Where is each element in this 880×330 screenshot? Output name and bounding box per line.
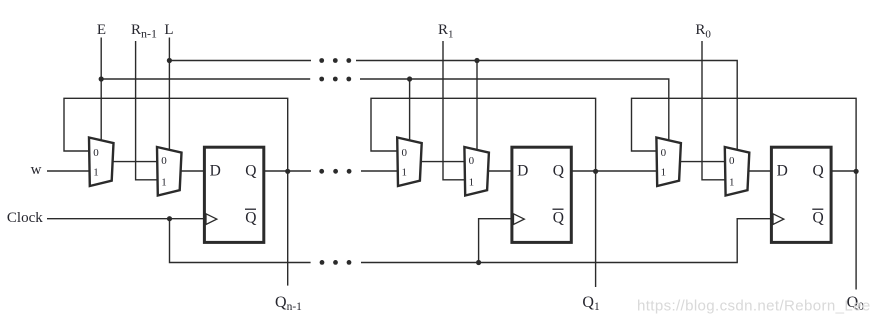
junction: clock branch stage 1: [476, 260, 481, 265]
wire: Q0 output: [831, 170, 856, 172]
svg-text:0: 0: [469, 155, 475, 167]
svg-text:0: 0: [93, 147, 99, 159]
2-to-1 multiplexer enable mux stage 1: [397, 138, 422, 187]
wire: L drop to stage-1 mux select: [476, 61, 478, 151]
ellipsis dot (continuation): [346, 58, 351, 63]
wire: L bus from L to break: [169, 60, 311, 62]
wire: w input: [47, 170, 90, 172]
ellipsis dot (continuation): [333, 77, 338, 82]
wire: stage 1 enable-mux output to load-mux: [420, 161, 465, 163]
junction: clock branch stage n-1: [167, 216, 172, 221]
svg-text:1: 1: [661, 166, 667, 178]
wire: Rn-1 input to mux-1 pin: [136, 41, 159, 180]
junction: Q0 node: [854, 169, 859, 174]
ellipsis dot (continuation): [319, 169, 324, 174]
wire: stage n-1 load-mux output to D: [180, 170, 204, 172]
wire: stage 1 load-mux output to D: [488, 170, 512, 172]
D flip-flop stage 1: [512, 147, 571, 242]
svg-text:D: D: [777, 163, 788, 180]
svg-text:w: w: [31, 162, 42, 178]
junction: Q n-1 node: [285, 169, 290, 174]
wire: Q n-1 output to break: [264, 170, 311, 172]
svg-text:Q: Q: [245, 163, 256, 180]
svg-text:https://blog.csdn.net/Reborn_L: https://blog.csdn.net/Reborn_Lee: [637, 298, 871, 315]
wire: L bus to stage-0 mux select: [356, 61, 737, 151]
wire: Q1 to stage 0: [571, 170, 657, 172]
ellipsis dot (continuation): [346, 77, 351, 82]
wire: Q1 feedback to mux-0 pin: [371, 98, 596, 171]
svg-text:Q: Q: [553, 210, 564, 227]
svg-text:0: 0: [661, 147, 667, 159]
clock pin triangle of stage 0: [773, 214, 784, 225]
svg-text:Q: Q: [553, 163, 564, 180]
svg-text:0: 0: [729, 155, 735, 167]
D flip-flop stage n-1: [204, 147, 263, 242]
2-to-1 multiplexer load mux stage 0: [725, 147, 750, 196]
wire: E bus from E to break: [101, 78, 310, 80]
wire: Clock input to stage n-1: [47, 218, 204, 220]
svg-text:E: E: [97, 22, 106, 38]
svg-text:Clock: Clock: [7, 210, 43, 226]
junction: L tap stage n-1: [167, 58, 172, 63]
wire: clock down to bottom rail: [170, 219, 311, 263]
ellipsis dot (continuation): [333, 260, 338, 265]
ellipsis dot (continuation): [320, 260, 325, 265]
wire: R1 input to mux-1 pin: [443, 41, 466, 180]
clock pin triangle of stage 1: [514, 214, 525, 225]
ellipsis dot (continuation): [319, 58, 324, 63]
wire: Q0 down to label: [855, 171, 857, 290]
wire: clock rail to stage 0: [361, 219, 771, 263]
ellipsis dot (continuation): [319, 77, 324, 82]
wire: R0 input to mux-1 pin: [702, 41, 726, 180]
svg-text:0: 0: [401, 147, 407, 159]
wire: stage 0 enable-mux output to load-mux: [679, 161, 726, 163]
svg-text:D: D: [517, 163, 528, 180]
wire: Q0 feedback to mux-0 pin: [632, 98, 857, 171]
clock pin triangle of stage n-1: [206, 214, 217, 225]
svg-text:Q: Q: [813, 210, 824, 227]
wire: L input vertical: [168, 38, 170, 151]
svg-text:L: L: [164, 22, 173, 38]
wire: E drop to stage-1 mux select: [409, 79, 411, 141]
junction: L tap stage 1: [474, 58, 479, 63]
svg-text:0: 0: [161, 155, 167, 167]
svg-text:1: 1: [93, 166, 99, 178]
ellipsis dot (continuation): [333, 58, 338, 63]
wire: E bus to stage-0 mux select: [360, 79, 669, 141]
wire: Q1 down to label: [595, 171, 597, 287]
D flip-flop stage 0: [771, 147, 831, 242]
svg-text:D: D: [210, 163, 221, 180]
svg-text:1: 1: [401, 166, 407, 178]
2-to-1 multiplexer enable mux stage n-1: [89, 138, 114, 187]
wire: stage n-1 enable-mux output to load-mux: [112, 161, 158, 163]
2-to-1 multiplexer load mux stage 1: [464, 147, 489, 196]
wire: clock rise to stage 1: [479, 219, 512, 263]
ellipsis dot (continuation): [333, 169, 338, 174]
svg-text:Q: Q: [245, 210, 256, 227]
wire: Qn-1 feedback to mux-0 pin: [64, 98, 288, 171]
junction: Q1 node: [593, 169, 598, 174]
2-to-1 multiplexer load mux stage n-1: [157, 147, 182, 196]
svg-text:1: 1: [729, 177, 735, 189]
ellipsis dot (continuation): [347, 169, 352, 174]
wire: E input vertical: [100, 38, 102, 141]
2-to-1 multiplexer enable mux stage 0: [656, 138, 681, 187]
junction: E tap stage 1: [407, 76, 412, 81]
svg-text:1: 1: [469, 177, 475, 189]
junction: E tap stage n-1: [99, 76, 104, 81]
wire: Q n-1 down to label: [287, 171, 289, 286]
wire: stage 0 load-mux output to D: [748, 170, 771, 172]
svg-text:1: 1: [161, 177, 167, 189]
svg-text:Q: Q: [813, 163, 824, 180]
wire: serial input to stage 1: [361, 170, 398, 172]
ellipsis dot (continuation): [347, 260, 352, 265]
